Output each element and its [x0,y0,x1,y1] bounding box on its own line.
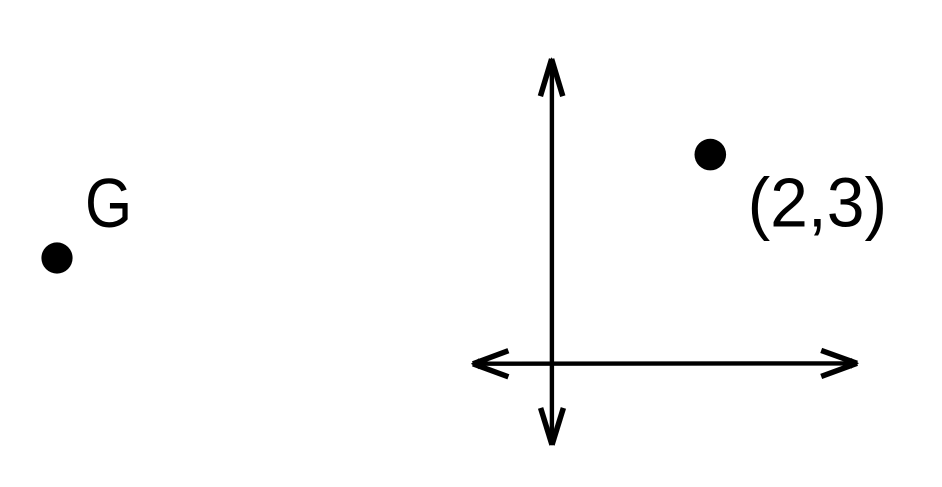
point G dot [41,242,72,273]
label G [85,164,132,242]
y-axis shaft [550,62,554,442]
x-axis shaft [475,361,855,366]
x-axis right arrowhead [821,350,859,376]
x-axis left arrowhead [471,351,509,377]
point (2,3) dot [695,139,727,171]
y-axis top arrowhead [540,57,562,96]
svg-text:G: G [85,164,132,242]
y-axis bottom arrowhead [541,408,564,446]
label (2,3) [748,163,888,241]
svg-text:(2,3): (2,3) [748,163,888,241]
